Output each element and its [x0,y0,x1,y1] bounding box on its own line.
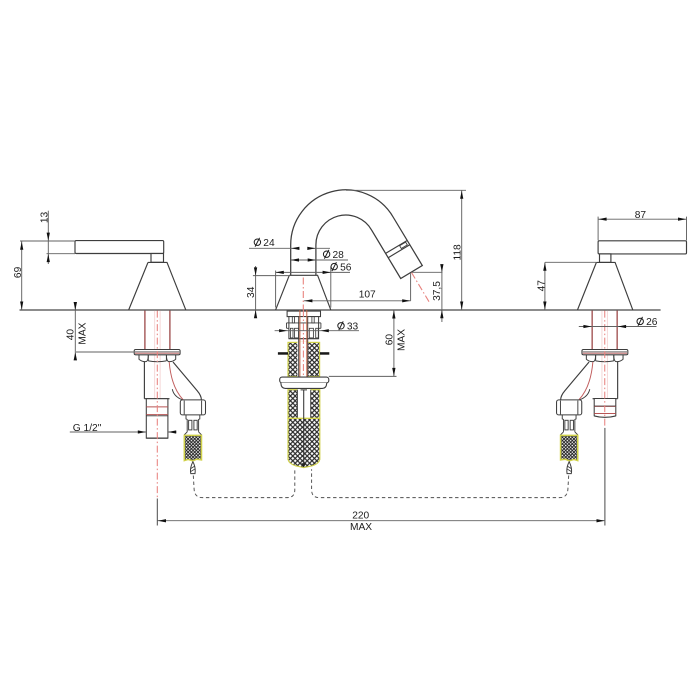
spout curved tube outline [291,190,423,279]
valve shank red edges [616,311,618,350]
dimension dia 26 [579,326,657,328]
left valve centerline lower black [156,499,158,526]
right valve centerline lower black [604,428,606,526]
right handle lever bar [598,241,686,254]
valve shoulder [593,398,618,400]
braided hose section [184,435,201,460]
spout aerator joint ring 1 [386,240,408,253]
dimension 47 [544,262,546,310]
center threaded shank hatch upper [288,342,320,377]
valve body below nut [617,362,619,399]
spout base cone [276,275,331,310]
svg-text:37,5: 37,5 [432,281,443,301]
right valve below-deck assembly (mirrored) [557,311,628,474]
center shank hatch middle [288,389,320,419]
left flexible hose dashed path [193,469,294,497]
svg-text:107: 107 [359,290,376,301]
right valve threaded tailpiece [594,399,616,418]
svg-text:28: 28 [333,250,345,261]
spout aerator joint ring 2 [388,245,410,258]
valve branch inner edge [580,389,590,400]
valve inner tube pale lines [154,311,156,399]
center shank channel walls [299,317,308,377]
svg-text:33: 33 [347,322,359,333]
right valve centerline red dash-dot [604,311,606,426]
hose fitting [561,415,578,435]
valve hex nut [586,355,623,362]
valve shank red edges [144,311,146,350]
branch hex nut [557,400,582,415]
svg-text:34: 34 [246,286,257,298]
dimension 37,5 [441,265,443,322]
dimension dia 33 [275,330,359,332]
dimension 34 [255,266,257,318]
valve hex nut [139,355,176,362]
dimension 107 [304,300,411,302]
svg-text:13: 13 [39,212,50,224]
svg-text:56: 56 [340,263,352,274]
left valve centerline red dash-dot [156,311,158,499]
svg-text:MAX: MAX [78,322,89,344]
hose drip end [190,462,195,474]
dimension 60 MAX [393,310,395,376]
deck mounting surface line [20,309,661,311]
hose fitting [184,415,201,435]
branch hex nut [180,400,205,415]
valve branch outer edge [561,362,589,400]
spout base centerline red [302,278,304,311]
left handle lever bar [75,241,164,254]
center threaded rod [301,390,307,466]
dimension dia 56 [276,271,350,273]
left valve threaded tailpiece [146,399,168,438]
dimension dia 28 [291,259,348,261]
dimension 87 [598,218,686,220]
spout aerator axis red leader [412,273,430,303]
hose drip end [567,462,572,474]
valve shoulder [144,398,169,400]
center shank hatch lower with cap [288,418,320,467]
svg-text:24: 24 [263,238,275,249]
dimension 220 MAX [158,520,606,522]
svg-text:MAX: MAX [350,522,372,533]
center rod tip wedge [301,463,306,467]
svg-text:26: 26 [646,317,658,328]
dimension G 1/2 [70,431,146,433]
center side stud left [278,352,288,355]
center cartridge housing body [287,317,321,339]
valve branch red blend curve [169,362,183,400]
center side stud right [320,352,330,355]
valve branch outer edge [173,362,201,400]
valve body below nut [143,362,145,399]
dimension dia 24 [249,247,299,249]
dimension 13 [47,211,49,264]
center unit washer below deck [287,311,320,317]
left handle stem [151,254,164,263]
dimension 118 [461,190,463,310]
center unit centerline red [302,310,304,377]
valve flange [582,350,628,355]
valve branch inner edge [172,389,182,400]
svg-text:MAX: MAX [397,329,408,351]
left handle cone [129,262,186,310]
left valve below-deck assembly [134,311,205,474]
right handle stem [600,254,611,263]
valve inner tube pale lines [606,311,608,399]
right handle cone [578,262,633,310]
svg-text:G 1/2": G 1/2" [73,423,102,434]
svg-text:87: 87 [635,210,647,221]
dimension 69 [21,241,23,310]
svg-text:69: 69 [13,266,24,278]
valve flange [134,350,180,355]
braided hose section [561,435,578,460]
spout aerator notch [400,242,408,248]
svg-text:40: 40 [66,329,77,341]
valve branch red blend curve [579,362,593,400]
dimension 40 MAX [74,303,76,360]
center horseshoe flange [280,377,329,388]
svg-text:60: 60 [385,334,396,346]
center supply tube red [300,310,307,377]
svg-text:118: 118 [452,244,463,261]
svg-text:220: 220 [352,511,369,522]
svg-text:47: 47 [536,280,547,292]
right flexible hose dashed path [312,469,569,497]
